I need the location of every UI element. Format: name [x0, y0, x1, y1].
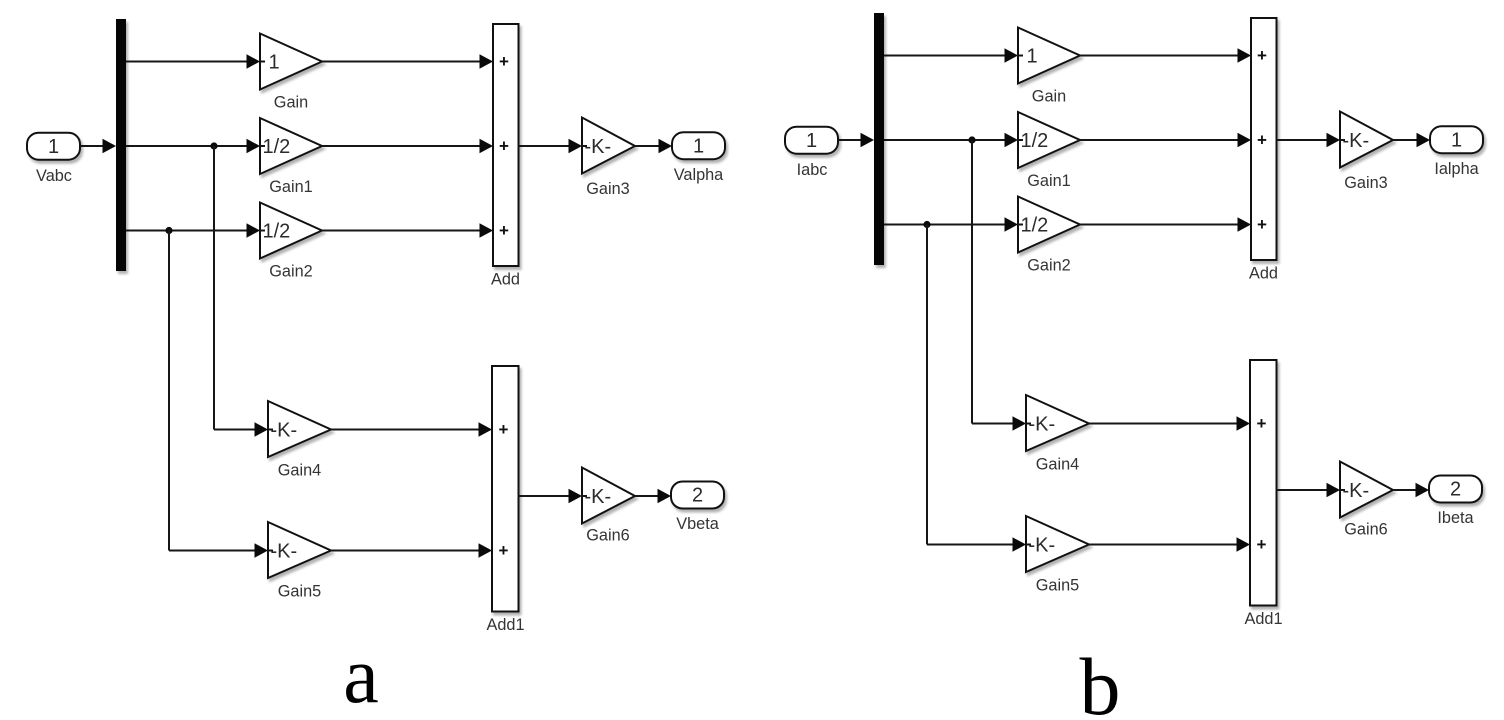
svg-text:1/2: 1/2	[263, 136, 291, 158]
svg-text:Gain6: Gain6	[586, 527, 629, 545]
svg-text:+: +	[1257, 215, 1267, 234]
mux bus selector bar	[874, 13, 884, 265]
gain block Gain4 (-K-)	[268, 401, 331, 480]
wire Add1 to Gain6	[519, 489, 583, 503]
svg-text:Gain5: Gain5	[1036, 577, 1079, 595]
svg-text:1: 1	[693, 135, 704, 157]
svg-text:1: 1	[269, 52, 280, 74]
svg-text:a: a	[343, 632, 379, 720]
svg-text:1/2: 1/2	[1021, 130, 1049, 152]
svg-text:Add1: Add1	[486, 616, 524, 634]
junction node on Gain1 wire	[210, 142, 217, 149]
svg-text:Gain: Gain	[1032, 88, 1066, 106]
wire Gain5 to Add1	[1089, 537, 1250, 551]
gain block Gain5 (-K-)	[268, 522, 331, 601]
svg-text:-K-: -K-	[585, 136, 612, 158]
svg-text:+: +	[499, 420, 509, 439]
svg-text:-K-: -K-	[271, 541, 298, 563]
wire Gain1 to Add	[1080, 133, 1251, 147]
svg-text:1: 1	[1451, 129, 1462, 151]
wire Add1 to Gain6	[1277, 483, 1341, 497]
svg-text:+: +	[1257, 535, 1267, 554]
junction node on Gain2 wire	[165, 227, 172, 234]
svg-text:-K-: -K-	[1343, 480, 1370, 502]
outport 2 (Ibeta)	[1429, 476, 1482, 528]
svg-text:2: 2	[692, 485, 703, 507]
svg-text:1: 1	[806, 130, 817, 152]
junction node on Gain1 wire	[968, 136, 975, 143]
svg-text:1: 1	[1027, 46, 1038, 68]
gain block Gain4 (-K-)	[1026, 395, 1089, 474]
wire Gain4 to Add1	[1089, 416, 1250, 430]
wire Gain to Add	[1080, 48, 1251, 62]
svg-text:Iabc: Iabc	[797, 161, 828, 179]
svg-text:+: +	[1257, 46, 1267, 65]
wire Gain2 to Add	[1080, 217, 1251, 231]
svg-text:1: 1	[48, 136, 59, 158]
outport 1 (Valpha)	[672, 132, 725, 184]
wire Add to Gain3	[1277, 133, 1341, 147]
gain block Gain2 (1/2)	[260, 203, 322, 281]
wire mux to Gain	[884, 48, 1018, 62]
wire Gain6 to outport	[1393, 483, 1429, 497]
svg-text:1/2: 1/2	[1021, 215, 1049, 237]
junction node on Gain2 wire	[923, 221, 930, 228]
outport 1 (Ialpha)	[1430, 126, 1483, 178]
wire Gain6 to outport	[635, 489, 671, 503]
svg-text:Gain1: Gain1	[1027, 172, 1070, 190]
sum block Add1	[1244, 360, 1282, 628]
wire Iabc to mux	[838, 133, 874, 147]
wire Gain3 to outport	[635, 139, 672, 153]
gain block Gain1 (1/2)	[260, 118, 322, 196]
svg-text:Valpha: Valpha	[674, 166, 724, 184]
svg-text:-K-: -K-	[1029, 414, 1056, 436]
wire mux to Gain1	[126, 139, 260, 153]
svg-text:1/2: 1/2	[263, 221, 291, 243]
svg-text:Gain2: Gain2	[1027, 257, 1070, 275]
svg-text:+: +	[499, 137, 509, 156]
svg-text:Ibeta: Ibeta	[1437, 509, 1474, 527]
svg-text:+: +	[499, 541, 509, 560]
svg-text:Gain3: Gain3	[586, 180, 629, 198]
gain block Gain6 (-K-)	[1340, 462, 1393, 539]
gain block Gain3 (-K-)	[1340, 112, 1393, 193]
svg-text:Add: Add	[1249, 265, 1278, 283]
svg-text:Vabc: Vabc	[36, 167, 72, 185]
mux bus selector bar	[116, 19, 126, 271]
wire Gain4 to Add1	[331, 422, 492, 436]
wire junction down to Gain5	[169, 231, 268, 558]
svg-text:+: +	[499, 52, 509, 71]
wire mux to Gain2	[126, 223, 260, 237]
svg-text:Gain2: Gain2	[269, 263, 312, 281]
wire Gain to Add	[322, 54, 493, 68]
svg-text:-K-: -K-	[1029, 535, 1056, 557]
wire junction down to Gain5	[927, 225, 1026, 552]
svg-text:Gain6: Gain6	[1344, 521, 1387, 539]
svg-text:Gain3: Gain3	[1344, 174, 1387, 192]
svg-text:Gain5: Gain5	[278, 583, 321, 601]
gain block Gain (1)	[1018, 28, 1080, 106]
inport 1 (Iabc)	[785, 127, 838, 179]
wire Add to Gain3	[519, 139, 583, 153]
gain block Gain (1)	[260, 34, 322, 112]
svg-text:Gain4: Gain4	[1036, 456, 1079, 474]
gain block Gain6 (-K-)	[582, 468, 635, 545]
svg-text:Vbeta: Vbeta	[676, 515, 719, 533]
wire mux to Gain1	[884, 133, 1018, 147]
sum block Add	[1249, 18, 1278, 283]
outport 2 (Vbeta)	[671, 482, 724, 534]
svg-text:Gain4: Gain4	[278, 462, 321, 480]
svg-text:-K-: -K-	[585, 486, 612, 508]
svg-text:+: +	[499, 221, 509, 240]
svg-text:+: +	[1257, 414, 1267, 433]
wire mux to Gain2	[884, 217, 1018, 231]
wire Vabc to mux	[80, 139, 116, 153]
wire Gain3 to outport	[1393, 133, 1430, 147]
svg-text:2: 2	[1450, 479, 1461, 501]
svg-text:Add1: Add1	[1244, 610, 1282, 628]
svg-text:Gain1: Gain1	[269, 178, 312, 196]
svg-text:Ialpha: Ialpha	[1434, 160, 1479, 178]
gain block Gain1 (1/2)	[1018, 112, 1080, 190]
svg-text:Gain: Gain	[274, 94, 308, 112]
wire junction down to Gain4	[972, 140, 1026, 431]
wire junction down to Gain4	[214, 146, 268, 437]
wire mux to Gain	[126, 54, 260, 68]
svg-text:-K-: -K-	[271, 420, 298, 442]
wire Gain1 to Add	[322, 139, 493, 153]
svg-text:-K-: -K-	[1343, 130, 1370, 152]
gain block Gain2 (1/2)	[1018, 197, 1080, 275]
inport 1 (Vabc)	[27, 133, 80, 185]
gain block Gain3 (-K-)	[582, 118, 635, 199]
svg-text:b: b	[1080, 641, 1121, 720]
svg-text:Add: Add	[491, 271, 520, 289]
wire Gain5 to Add1	[331, 543, 492, 557]
gain block Gain5 (-K-)	[1026, 516, 1089, 595]
sum block Add	[491, 24, 520, 289]
sum block Add1	[486, 366, 524, 634]
svg-text:+: +	[1257, 131, 1267, 150]
wire Gain2 to Add	[322, 223, 493, 237]
